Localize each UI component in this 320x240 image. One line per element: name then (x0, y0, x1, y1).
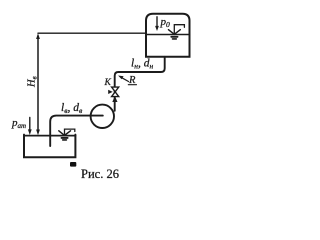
ink blob (70, 162, 76, 167)
pressure arrow p0 (155, 17, 159, 31)
upper tank (146, 14, 190, 57)
svg-text:pат: pат (11, 117, 26, 130)
svg-text:lв, dв: lв, dв (61, 102, 83, 115)
pipe lв dв (suction) (50, 116, 103, 146)
pipe lн dн (discharge) (115, 57, 165, 111)
svg-text:Рис. 26: Рис. 26 (81, 167, 119, 181)
lower tank (24, 135, 75, 158)
pump (91, 105, 114, 128)
pressure arrow p_ат (28, 118, 32, 136)
lower tank water line (24, 135, 75, 137)
upper level mark (169, 25, 185, 39)
dimension line Hв (36, 33, 40, 135)
leader arrow R (118, 76, 128, 82)
reference line at upper level (38, 32, 146, 34)
flow arrow on discharge pipe (112, 96, 117, 102)
svg-text:p0: p0 (160, 16, 171, 29)
svg-text:lн, dн: lн, dн (131, 58, 153, 71)
svg-text:K: K (104, 78, 112, 88)
underline of R (128, 84, 136, 86)
upper tank water line (146, 34, 190, 36)
lower level mark (59, 129, 75, 140)
valve K (hourglass) (108, 87, 119, 97)
svg-text:Hв: Hв (27, 76, 39, 88)
